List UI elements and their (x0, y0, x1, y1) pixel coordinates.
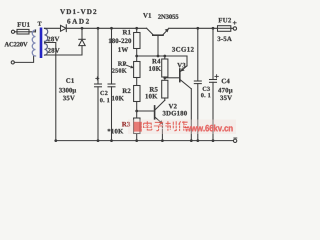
capacitor C2 (111, 28, 113, 84)
node dot rail C3 (196, 139, 199, 142)
node dot C3 top (196, 27, 199, 30)
node dot V1 base (157, 55, 160, 58)
transformer T core (40, 28, 43, 59)
label 0_1 (201, 93, 210, 97)
watermark char zhi (165, 121, 176, 131)
transformer T secondary top winding (45, 28, 48, 41)
capacitor C3 (197, 28, 199, 81)
watermark char zuo (179, 121, 188, 131)
node dot C4 top (212, 27, 215, 30)
label V2 (169, 104, 177, 109)
label 3300µ (59, 88, 76, 94)
label 28V (48, 48, 60, 53)
wire bottom rail (56, 140, 234, 142)
wire top rail left (66, 27, 146, 29)
node dot C1 top (97, 27, 100, 30)
label 10K (146, 94, 158, 99)
node minus sign (234, 137, 237, 139)
watermark char zi (154, 122, 163, 130)
label 3DG180 (163, 111, 187, 116)
resistor R2 (134, 86, 140, 102)
label T (38, 22, 42, 26)
label 180-220 (109, 38, 131, 43)
transformer T secondary bottom winding (45, 44, 48, 56)
node output terminal plus (233, 27, 236, 30)
watermark halo (128, 120, 236, 135)
wire to V3 base (165, 77, 180, 79)
label R3 (122, 122, 130, 127)
node AC input terminal top (11, 30, 14, 33)
node dot rail CT (54, 139, 57, 142)
resistor R4 (164, 56, 166, 59)
label 2N3055 (158, 14, 178, 18)
label 10K (149, 66, 161, 71)
node dot R1 RP junction (135, 55, 138, 58)
label R2 (122, 89, 130, 94)
capacitor C4 (212, 28, 214, 79)
label C1 (66, 78, 74, 83)
label AC220V (4, 42, 27, 46)
label 3-5A (218, 37, 232, 42)
fuse FU2 (218, 26, 231, 32)
label star10K (108, 129, 124, 134)
label 3CG12 (172, 47, 194, 52)
wire AC bottom to primary (14, 56, 35, 62)
label 0_1 (100, 98, 109, 102)
node dot rail C4 (212, 139, 215, 142)
node output terminal minus (233, 139, 236, 142)
node dot R4 top (163, 55, 166, 58)
wire top rail right (169, 27, 234, 29)
node AC input terminal bottom (11, 61, 14, 64)
watermark hatch stripes (142, 124, 190, 126)
diode VD1 (61, 25, 67, 31)
wire AC top into fuse (15, 31, 36, 33)
watermark char dian (144, 121, 152, 130)
node dot VD2 top (81, 27, 84, 30)
node dot C2 top (110, 27, 113, 30)
node dot R2 R3 junction (135, 110, 138, 113)
label R1 (123, 30, 131, 34)
capacitor C1 (97, 28, 99, 84)
label FU1 (17, 22, 29, 27)
label C3 (203, 87, 210, 91)
node dot rail V2 (161, 139, 164, 142)
watermark red block over R3 (134, 122, 142, 132)
label www_66kv_cn (185, 125, 233, 132)
label C2 (100, 91, 107, 95)
label 250K (112, 68, 126, 72)
node dot rail V3 (190, 139, 193, 142)
potentiometer RP (136, 56, 138, 62)
transformer T primary winding (32, 30, 35, 56)
resistor R1 (136, 28, 138, 32)
node plus sign (233, 22, 236, 24)
wire node line (137, 55, 187, 57)
label 28V (48, 37, 60, 42)
node dot rail R3 (135, 139, 138, 142)
transistor V1 (147, 28, 154, 35)
resistor R3 (134, 118, 140, 134)
label 10K (112, 96, 124, 101)
node dot rail C1 (97, 139, 100, 142)
node dot R1 top (135, 27, 138, 30)
label FU2 (218, 18, 231, 23)
label V1 (143, 13, 151, 18)
label VD1-VD2 (60, 9, 96, 14)
diode VD2 (81, 28, 83, 39)
node dot R4 R5 junction (163, 76, 166, 79)
label R5 (150, 87, 158, 92)
fuse FU1 (17, 29, 29, 34)
node dot rail C2 (110, 139, 113, 142)
wire to V2 base (137, 110, 154, 112)
transistor V3 (179, 69, 181, 82)
wire center tap to bottom rail (45, 43, 56, 141)
wire secondary top to VD1 (45, 27, 61, 29)
wire primary top stub (35, 30, 37, 32)
label RP (118, 62, 126, 66)
label 6AD2 (67, 19, 89, 24)
label 470µ (218, 88, 232, 94)
resistor R5 (162, 80, 168, 98)
label R4 (152, 59, 160, 63)
label V3 (177, 63, 185, 68)
label 35V (220, 96, 232, 101)
wire VD2 anode to secondary bottom (45, 46, 83, 55)
label 1W (118, 47, 128, 52)
label C4 (222, 79, 230, 84)
transistor V2 (155, 100, 165, 110)
label 35V (63, 96, 75, 101)
